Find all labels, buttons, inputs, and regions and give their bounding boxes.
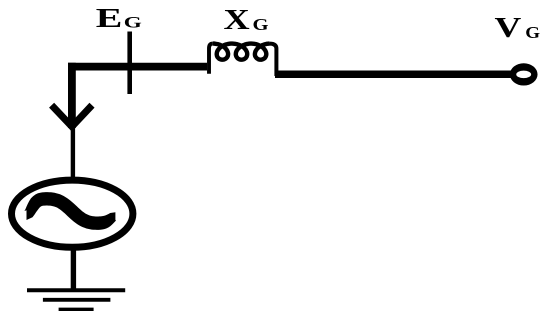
wire: vertical drop at left (corner) [68,63,76,128]
node tick E_G on wire [127,32,132,95]
AC source sine wave [24,192,116,230]
svg-text:G: G [525,23,540,42]
wire: inductor to terminal V_G [275,70,516,78]
label E_G [96,3,142,34]
wire: source bottom to ground [71,248,76,290]
wire: horizontal from source top corner to inductor [68,63,207,71]
terminal V_G (open ring) [510,63,538,85]
svg-text:X: X [224,4,251,36]
label V_G [495,13,541,44]
ground bar 1 [27,288,125,292]
AC source U1 (ellipse) [11,180,132,247]
ground bar 2 [43,298,111,302]
inductor X_G coil [209,44,276,76]
ground bar 3 [59,308,94,311]
svg-text:G: G [253,16,269,35]
wire: thin vertical into source [71,126,75,178]
svg-text:V: V [495,13,522,44]
svg-text:G: G [124,14,142,32]
current direction arrowhead (down) [52,105,92,126]
label X_G [224,4,269,36]
svg-text:E: E [96,3,123,34]
